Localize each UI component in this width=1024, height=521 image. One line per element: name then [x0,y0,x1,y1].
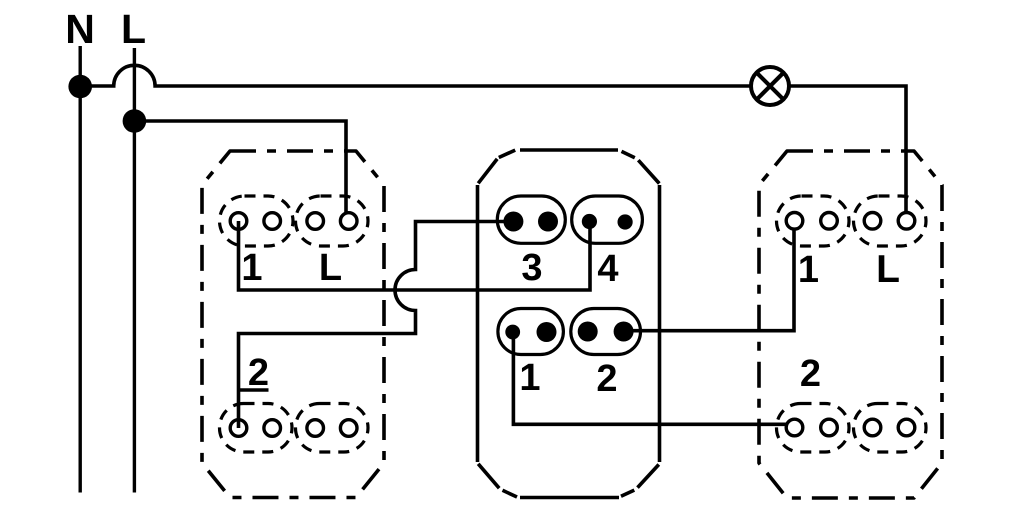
switch SW1 enclosure (left, dashed) [202,151,384,498]
SW1 terminal 2b [264,420,281,437]
svg-text:L: L [876,248,900,291]
svg-text:1: 1 [241,247,262,289]
SW3 bottom terminal block A (dashed surround) [777,404,850,453]
SW1 terminal L [340,213,357,230]
svg-text:4: 4 [597,248,618,290]
SW2 pin label 3 [521,247,542,289]
SW2 terminal 1 pin a [505,325,520,340]
SW2 terminal 3 pin a [503,212,523,232]
SW2 terminal 2 pin a [578,322,598,342]
SW3 terminal 2d [898,419,915,436]
SW2 terminal 3 pin b [538,212,558,232]
SW1 top terminal block B (dashed surround) [296,196,369,246]
SW2 pin label 1 [519,357,540,399]
SW1 pin label 1 [241,247,262,289]
wire N junction to lamp with hop over L [80,65,751,86]
SW1 terminal 2 [230,420,247,437]
SW1 terminal 2d [340,420,357,437]
SW1 terminal La [307,213,324,230]
switch SW3 enclosure (right, dashed) [759,151,942,498]
net L label [121,6,146,52]
SW3 terminal 1 [786,213,803,230]
SW2 pin label 2 [596,358,617,400]
SW1 terminal 1 [230,213,247,230]
SW3 terminal La [864,213,881,230]
SW3 top terminal block A (dashed surround) [777,196,850,246]
wire N supply vertical [78,46,81,493]
svg-text:2: 2 [596,358,617,400]
wire SW2 terminal 2 to SW3 terminal 1 [624,221,794,331]
SW2 terminal 4 pin b [618,214,633,229]
SW1 pin label L [319,247,342,289]
junction on L [123,109,147,133]
SW1 pin label 2 [248,352,269,394]
svg-text:2: 2 [800,353,821,395]
SW1 label 2 underline stub [239,388,269,391]
junction on N [68,75,92,99]
SW2 terminal 4 pin a [582,214,597,229]
SW3 pin label 2 [800,353,821,395]
svg-text:1: 1 [798,249,819,291]
svg-text:L: L [319,247,342,289]
SW2 pin label 4 [597,248,618,290]
SW3 pin label 1 [798,249,819,291]
SW2 terminal block 4 (solid surround) [572,196,643,243]
svg-text:N: N [65,6,95,52]
svg-text:L: L [121,6,146,52]
SW3 pin label L [876,248,900,291]
wire lamp to switch SW3 terminal L [789,86,906,221]
SW2 terminal block 1 (solid surround) [498,309,564,355]
SW2 terminal 2 pin b [614,322,634,342]
SW3 top terminal block B (dashed surround) [854,196,927,246]
svg-text:3: 3 [521,247,542,289]
switch SW2 enclosure (middle, long dashes) [478,150,660,498]
wire SW1 terminal 1 to SW2 terminal 4 [239,221,591,290]
SW2 terminal 1 pin b [537,322,557,342]
svg-text:2: 2 [248,352,269,394]
SW3 terminal 1b [821,213,838,230]
net N label [65,6,95,52]
SW3 terminal 2c [864,419,881,436]
SW1 bottom terminal block B (dashed surround) [296,404,369,453]
lamp E1 [751,67,789,105]
SW3 terminal 2 [786,419,803,436]
svg-text:1: 1 [519,357,540,399]
SW3 bottom terminal block B (dashed surround) [854,404,927,453]
wire SW2 terminal 3 to SW1 terminal 2 with hop [239,222,514,429]
SW3 terminal L [898,213,915,230]
SW1 terminal 2c [307,420,324,437]
wire L junction to switch SW1 terminal L [134,121,346,221]
SW3 terminal 2b [821,419,838,436]
SW2 terminal block 2 (solid surround) [571,309,641,355]
SW1 bottom terminal block A (dashed surround) [220,404,293,453]
SW1 terminal 1b [264,213,281,230]
SW2 terminal block 3 (solid surround) [497,196,565,243]
wire SW2 terminal 1 to SW3 bottom terminal [513,332,790,424]
SW1 top terminal block A (dashed surround) [220,196,294,246]
wire L supply vertical [133,48,136,493]
